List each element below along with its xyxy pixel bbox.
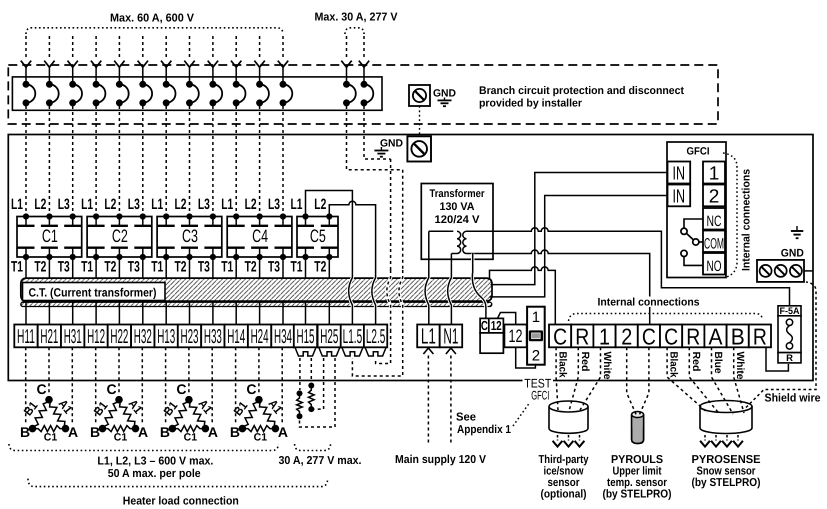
- svg-text:T1: T1: [291, 258, 303, 275]
- wire contactor output to H25 (upper segment): [328, 257, 330, 278]
- circuit breaker CB9: [209, 81, 216, 88]
- svg-text:T3: T3: [128, 258, 140, 275]
- svg-text:ice/snow: ice/snow: [544, 466, 584, 478]
- dashed sensor wires to PYROSENSE sensor: [667, 347, 708, 413]
- wire contactor output to H14 (upper segment): [235, 257, 237, 278]
- svg-text:C: C: [106, 381, 116, 397]
- terminal H15: [294, 325, 317, 348]
- dotted brace heater group: [9, 444, 278, 451]
- svg-text:C4: C4: [252, 226, 268, 246]
- svg-text:Appendix 1: Appendix 1: [457, 424, 512, 436]
- svg-text:A: A: [709, 324, 724, 350]
- contactor C1 pole 2 contact: [46, 213, 52, 219]
- contactor C4 pole 1 contact: [233, 213, 239, 219]
- label Internal connections (horizontal): [595, 297, 702, 308]
- svg-text:Snow sensor: Snow sensor: [697, 466, 756, 478]
- terminal R under fuse: [778, 353, 801, 363]
- svg-text:L1, L2, L3 – 600 V max.: L1, L2, L3 – 600 V max.: [97, 456, 213, 468]
- svg-text:PYROULS: PYROULS: [611, 454, 663, 466]
- svg-text:B: B: [90, 424, 100, 440]
- wire contactor output to H15 (upper segment): [305, 257, 307, 278]
- dashed wire breaker CB8 to contactor pole: [189, 106, 191, 214]
- wire transformer secondary to terminal C (cell 5) with hops: [467, 250, 650, 325]
- dotted brace heater load connection: [28, 479, 328, 487]
- svg-text:L1.5: L1.5: [343, 326, 363, 348]
- TEST GFCI button block: [527, 307, 545, 365]
- svg-text:IN: IN: [673, 164, 686, 185]
- svg-text:H12: H12: [87, 326, 105, 348]
- contactor C2: [87, 217, 152, 258]
- dashed wire breaker CB9 to contactor pole: [212, 106, 214, 214]
- contactor C3: [157, 217, 222, 258]
- svg-text:C3: C3: [182, 226, 198, 246]
- fuse F-5A header: [778, 306, 801, 316]
- dashed wire breaker CB6 to contactor pole: [142, 106, 144, 214]
- dashed wires to heater load 1: [25, 347, 27, 423]
- svg-text:C: C: [664, 324, 678, 350]
- supply feeder wire 2: [48, 36, 50, 59]
- svg-text:R: R: [753, 324, 767, 350]
- svg-text:2: 2: [621, 324, 632, 350]
- ground symbol (installer box): [444, 98, 446, 101]
- plug connector under terminal at x=329.3: [319, 347, 340, 356]
- wire to terminal H24 (lower segment): [259, 302, 261, 325]
- ground screw terminal GND (panel): [407, 136, 431, 161]
- svg-text:T3: T3: [58, 258, 70, 275]
- terminal H13: [155, 325, 178, 348]
- svg-text:L3: L3: [58, 196, 70, 213]
- dashed sensor wires to PYROULS sensor: [627, 347, 637, 415]
- wire contactor output to H13 (upper segment): [165, 257, 167, 278]
- contactor C5: [297, 217, 338, 258]
- output arrow PYROSENSE: [726, 435, 728, 441]
- svg-text:T1: T1: [151, 258, 163, 275]
- PYROSENSE snow sensor cylinder: [700, 407, 752, 434]
- dotted wire from installer GND screw to panel GND screw: [419, 106, 421, 136]
- dashed wire CB13 to L1.5 plug: [352, 330, 402, 376]
- arrowhead feeder 2: [44, 61, 54, 68]
- svg-text:T1: T1: [11, 258, 23, 275]
- supply feeder wire 3: [72, 36, 74, 59]
- svg-text:GFCI: GFCI: [687, 146, 710, 158]
- svg-text:T2: T2: [314, 258, 326, 275]
- svg-text:PYROSENSE: PYROSENSE: [692, 454, 761, 466]
- supply feeder wire 8: [189, 36, 191, 59]
- wire jumper C12 to terminal 12: [498, 313, 516, 325]
- wire transformer secondary 24V to fuse F-5A with hops: [467, 228, 790, 306]
- svg-text:T1: T1: [81, 258, 93, 275]
- svg-text:COM: COM: [704, 236, 724, 253]
- svg-text:C: C: [36, 381, 46, 397]
- svg-text:A: A: [68, 424, 78, 440]
- contactor C1: [17, 217, 82, 258]
- svg-text:L1: L1: [151, 196, 163, 213]
- wire contactor output to H21 (upper segment): [48, 257, 50, 278]
- svg-text:Blue: Blue: [712, 352, 724, 374]
- arrowhead feeder 3: [68, 61, 78, 68]
- svg-text:Heater load connection: Heater load connection: [123, 496, 239, 508]
- svg-text:Max. 60 A, 600 V: Max. 60 A, 600 V: [110, 13, 194, 25]
- svg-text:Red: Red: [579, 352, 591, 372]
- terminal strip cell R (pos 10): [749, 325, 771, 348]
- wire contactor output to H12 (upper segment): [95, 257, 97, 278]
- svg-text:C5: C5: [310, 226, 326, 246]
- svg-text:GFCI: GFCI: [531, 389, 549, 403]
- circuit breaker CB5: [116, 81, 123, 88]
- arrowhead feeder 5: [114, 61, 124, 68]
- terminal strip cell 2 (pos 4): [616, 325, 638, 348]
- svg-text:T2: T2: [175, 258, 187, 275]
- svg-text:L2.5: L2.5: [366, 326, 386, 348]
- plug connector under terminal at x=305.5: [295, 347, 316, 356]
- dashed wire CB14 through CT: [387, 270, 391, 330]
- contactor C2 pole 1 contact: [93, 213, 99, 219]
- transformer secondary winding: [463, 231, 467, 253]
- circuit breaker CB12: [280, 81, 287, 88]
- dashed wire breaker CB12 to contactor pole: [282, 106, 284, 214]
- contactor C5 pole 2 contact: [326, 213, 332, 219]
- svg-text:Internal connections: Internal connections: [741, 169, 753, 271]
- terminal L2.5: [364, 325, 387, 348]
- wire contactor output to H33 (upper segment): [212, 257, 214, 278]
- svg-text:C: C: [176, 381, 186, 397]
- svg-text:1: 1: [709, 164, 720, 185]
- circuit breaker CB10: [233, 81, 240, 88]
- svg-text:H34: H34: [274, 326, 292, 348]
- svg-text:C2: C2: [112, 226, 128, 246]
- svg-text:L1: L1: [11, 196, 23, 213]
- wire to terminal H33 (lower segment): [212, 302, 214, 325]
- svg-text:T3: T3: [268, 258, 280, 275]
- contactor C1 pole 1 contact: [23, 213, 29, 219]
- dashed wire breaker CB7 to contactor pole: [165, 106, 167, 214]
- svg-text:T2: T2: [245, 258, 257, 275]
- dashed wire breaker CB5 to contactor pole: [118, 106, 120, 214]
- svg-text:L1: L1: [421, 324, 436, 349]
- circuit breaker CB2: [46, 81, 53, 88]
- contactor C2 pole 3 contact: [140, 213, 146, 219]
- terminal L1 main supply: [417, 325, 440, 348]
- terminal N1 main supply: [440, 325, 463, 348]
- svg-text:1: 1: [599, 324, 610, 350]
- svg-text:H25: H25: [320, 326, 338, 348]
- svg-text:C1: C1: [44, 432, 58, 444]
- dotted pointer See Appendix 1: [513, 404, 529, 427]
- third-party ice/snow sensor cylinder: [549, 407, 588, 434]
- svg-text:H23: H23: [181, 326, 199, 348]
- svg-text:Transformer: Transformer: [430, 188, 486, 200]
- 30A load resistor 1: [297, 390, 303, 396]
- supply feeder wire 9: [212, 36, 214, 59]
- dashed wires to heater load 2: [95, 347, 97, 423]
- supply feeder wire 11: [259, 36, 261, 59]
- terminal strip cell C (pos 1): [549, 325, 571, 348]
- plug connector under terminal at x=352.4: [342, 347, 363, 356]
- svg-text:L2: L2: [104, 196, 116, 213]
- svg-text:2: 2: [532, 348, 540, 365]
- dashed wire breaker CB1 to contactor pole: [25, 106, 27, 214]
- dashed wire breaker CB13 to L1.5 terminal: [347, 106, 403, 170]
- circuit breaker CB13: [343, 81, 350, 88]
- supply feeder wire 7: [165, 36, 167, 59]
- terminal H12: [84, 325, 107, 348]
- terminal strip cell A (pos 8): [704, 325, 726, 348]
- svg-text:temp. sensor: temp. sensor: [607, 477, 667, 489]
- arrowhead feeder 8: [184, 61, 194, 68]
- dashed wires H25 to 30A load: [315, 358, 324, 409]
- svg-text:L1: L1: [81, 196, 93, 213]
- svg-text:50 A max. per pole: 50 A max. per pole: [108, 468, 201, 480]
- label C5: [308, 229, 327, 244]
- terminal 12: [504, 325, 526, 348]
- svg-text:B: B: [230, 424, 240, 440]
- wire contactor output to H23 (upper segment): [189, 257, 191, 278]
- dashed wire breaker CB4 to contactor pole: [95, 106, 97, 214]
- wire primary N1 through CT: [448, 270, 452, 325]
- supply feeder wire 6: [142, 36, 144, 59]
- svg-text:30 A, 277 V max.: 30 A, 277 V max.: [279, 455, 362, 467]
- terminal H22: [108, 325, 131, 348]
- svg-text:12: 12: [509, 326, 523, 346]
- terminal H34: [271, 325, 294, 348]
- transformer primary winding: [429, 230, 454, 232]
- terminal H21: [38, 325, 61, 348]
- wire to terminal H34 (lower segment): [282, 302, 284, 325]
- wire to terminal H21 (lower segment): [48, 302, 50, 325]
- svg-text:Red: Red: [690, 352, 702, 372]
- svg-text:130 VA: 130 VA: [440, 201, 475, 213]
- supply feeder wire 14: [363, 36, 365, 59]
- main controller enclosure box: [8, 135, 813, 381]
- circuit breaker CB4: [93, 81, 100, 88]
- svg-text:A: A: [208, 424, 218, 440]
- wire to terminal H31 (lower segment): [72, 302, 74, 325]
- contactor C3 pole 3 contact: [210, 213, 216, 219]
- dashed wire breaker CB2 to contactor pole: [48, 106, 50, 214]
- svg-text:H22: H22: [110, 326, 128, 348]
- output arrow PYROSENSE: [704, 435, 706, 441]
- svg-text:H32: H32: [134, 326, 152, 348]
- svg-text:H11: H11: [17, 326, 35, 348]
- svg-text:GND: GND: [380, 138, 403, 150]
- supply feeder wire 4: [95, 36, 97, 59]
- terminal H14: [225, 325, 248, 348]
- svg-text:B: B: [160, 424, 170, 440]
- svg-text:provided by installer: provided by installer: [479, 98, 583, 110]
- dashed wires H15 to 30A load: [299, 358, 301, 390]
- svg-text:C1: C1: [114, 432, 128, 444]
- contactor C1 pole 3 contact: [70, 213, 76, 219]
- svg-text:H24: H24: [251, 326, 269, 348]
- svg-text:Black: Black: [668, 352, 680, 378]
- svg-text:(by STELPRO): (by STELPRO): [692, 477, 761, 489]
- svg-text:H15: H15: [297, 326, 315, 348]
- svg-text:2: 2: [709, 187, 720, 208]
- wire to terminal H22 (lower segment): [118, 302, 120, 325]
- label TEST: [523, 377, 554, 390]
- dashed wire CB13 through CT: [399, 270, 403, 330]
- wire CT output to terminal C (cell 1) with hops: [490, 267, 556, 325]
- terminal strip cell C (pos 5): [638, 325, 660, 348]
- heater load delta resistor group 3: [172, 400, 189, 429]
- GFCI terminal NC: [703, 208, 725, 230]
- svg-text:L3: L3: [128, 196, 140, 213]
- svg-text:L2: L2: [34, 196, 46, 213]
- svg-text:(optional): (optional): [541, 489, 587, 501]
- svg-text:L3: L3: [268, 196, 280, 213]
- output arrow ice/snow sensor: [579, 435, 581, 441]
- svg-text:R: R: [786, 353, 793, 364]
- svg-text:H33: H33: [204, 326, 222, 348]
- svg-text:R: R: [575, 324, 589, 350]
- wire C5 L1 through CT to L1.5: [349, 270, 353, 325]
- arrowhead feeder 7: [161, 61, 171, 68]
- terminal H11: [14, 325, 37, 348]
- contactor C4: [227, 217, 292, 258]
- svg-text:White: White: [601, 352, 613, 380]
- svg-text:C: C: [481, 318, 488, 333]
- svg-text:T2: T2: [104, 258, 116, 275]
- wire contactor output to H34 (upper segment): [282, 257, 284, 278]
- svg-text:C1: C1: [42, 226, 58, 246]
- terminal H24: [248, 325, 271, 348]
- svg-text:NC: NC: [707, 213, 722, 230]
- svg-text:H31: H31: [64, 326, 82, 348]
- terminal strip cell C (pos 6): [660, 325, 682, 348]
- wire to terminal H32 (lower segment): [142, 302, 144, 325]
- svg-text:T2: T2: [34, 258, 46, 275]
- terminal strip cell 1 (pos 3): [593, 325, 615, 348]
- heater load delta resistor group 4: [242, 400, 259, 429]
- triple ground screw terminal block: [757, 260, 804, 282]
- svg-text:B: B: [20, 424, 30, 440]
- wire C5 L2 through CT to L2.5: [372, 270, 376, 325]
- dotted brace 30A load: [295, 444, 331, 451]
- GFCI terminal 1: [703, 162, 725, 184]
- svg-text:See: See: [456, 412, 476, 424]
- dashed sensor wires to ice/snow sensor: [556, 347, 558, 410]
- svg-text:Internal connections: Internal connections: [598, 297, 700, 309]
- contactor C2 pole 2 contact: [116, 213, 122, 219]
- svg-text:L2: L2: [175, 196, 187, 213]
- output arrow PYROSENSE: [715, 435, 717, 441]
- wire contactor output to H11 (upper segment): [25, 257, 27, 278]
- GFCI terminal NO: [703, 253, 725, 275]
- wire to terminal H12 (lower segment): [95, 302, 97, 325]
- heater load delta resistor group 1: [33, 400, 50, 429]
- svg-text:Branch circuit protection and: Branch circuit protection and disconnect: [479, 85, 684, 97]
- wire screw block to enclosure: [804, 270, 813, 272]
- label C1: [40, 229, 59, 244]
- circuit breaker CB6: [139, 81, 146, 88]
- svg-text:Upper limit: Upper limit: [613, 466, 662, 478]
- svg-text:Shield wire: Shield wire: [765, 393, 821, 405]
- dashed wires to heater load 3: [165, 347, 167, 423]
- arrowhead feeder 10: [231, 61, 241, 68]
- arrow into main supply terminal: [423, 348, 433, 354]
- wire contactor output to H32 (upper segment): [142, 257, 144, 278]
- PYROULS temperature sensor probe: [632, 415, 644, 444]
- svg-text:H14: H14: [227, 326, 245, 348]
- contactor C3 pole 2 contact: [186, 213, 192, 219]
- arrowhead feeder 4: [91, 61, 101, 68]
- plug connector under terminal at x=375.6: [365, 347, 386, 356]
- GFCI relay switch: [684, 219, 703, 228]
- arrowhead feeder 6: [138, 61, 148, 68]
- wire to terminal H11 (lower segment): [25, 302, 27, 325]
- svg-text:A: A: [138, 424, 148, 440]
- arrowhead feeder 1: [21, 61, 31, 68]
- svg-text:NO: NO: [707, 258, 722, 275]
- svg-text:T3: T3: [198, 258, 210, 275]
- contactor C4 pole 3 contact: [280, 213, 286, 219]
- wire terminal R (strip) to fuse R: [766, 347, 788, 371]
- supply feeder wire 1: [25, 36, 27, 59]
- C.T. current transformer bar: [21, 278, 492, 301]
- wire to terminal H25 (lower segment): [328, 302, 330, 325]
- svg-text:T1: T1: [221, 258, 233, 275]
- svg-text:L3: L3: [198, 196, 210, 213]
- ground symbol (panel): [380, 147, 382, 150]
- circuit breaker CB3: [69, 81, 76, 88]
- dashed wire breaker CB10 to contactor pole: [235, 106, 237, 214]
- wire terminal 12 to test block: [516, 347, 536, 368]
- terminal H23: [178, 325, 201, 348]
- ground screw terminal GND (installer box): [409, 85, 430, 106]
- svg-text:B: B: [731, 324, 745, 350]
- dotted shield wire path: [746, 282, 816, 408]
- dashed box: branch circuit protection provided by installer: [8, 65, 718, 124]
- svg-text:C: C: [642, 324, 656, 350]
- wire transformer primary to N1: [450, 254, 452, 271]
- terminal strip cell B (pos 9): [727, 325, 749, 348]
- label C4: [250, 229, 269, 244]
- dashed wire breaker CB11 to contactor pole: [259, 106, 261, 214]
- dotted bracket right of GFCI: [723, 153, 737, 278]
- fuse F-5A body: [778, 316, 801, 353]
- svg-text:R: R: [686, 324, 700, 350]
- dashed wire CB13 vertical upper: [402, 170, 404, 270]
- contactor C5 pole 1 contact: [302, 213, 308, 219]
- label C3: [180, 229, 199, 244]
- wire to terminal H14 (lower segment): [235, 302, 237, 325]
- terminal H31: [61, 325, 84, 348]
- wire contactor output to H24 (upper segment): [259, 257, 261, 278]
- svg-text:C: C: [553, 324, 567, 350]
- svg-text:L1: L1: [291, 196, 303, 213]
- GFCI module box: [667, 142, 726, 278]
- terminal H25: [318, 325, 341, 348]
- circuit breaker CB8: [186, 81, 193, 88]
- wire transformer secondary tap through CT to C12 terminal: [472, 254, 486, 319]
- circuit breaker CB1: [23, 81, 30, 88]
- wire CT sense to GFCI IN 2: [490, 196, 668, 297]
- terminal L1.5: [341, 325, 364, 348]
- supply feeder wire 12: [282, 36, 284, 59]
- wire primary L1 through CT: [425, 270, 429, 325]
- contactor C3 pole 1 contact: [163, 213, 169, 219]
- arrowhead feeder 11: [254, 61, 264, 68]
- arrowhead feeder 14: [359, 61, 369, 68]
- svg-text:L2: L2: [245, 196, 257, 213]
- svg-text:L2: L2: [314, 196, 326, 213]
- circuit breaker CB7: [163, 81, 170, 88]
- svg-text:sensor: sensor: [548, 477, 580, 489]
- arrow into main supply terminal: [446, 348, 456, 354]
- GFCI terminal 2: [703, 185, 725, 207]
- arrowhead feeder 13: [341, 61, 351, 68]
- terminal strip cell R (pos 2): [571, 325, 593, 348]
